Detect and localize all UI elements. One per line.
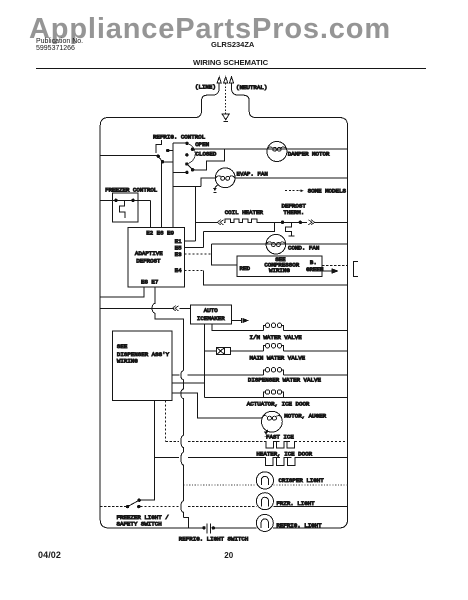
svg-text:REFRIG. CONTROL: REFRIG. CONTROL bbox=[153, 134, 206, 141]
node dot A bbox=[157, 155, 160, 158]
ground evap fan bbox=[215, 185, 218, 188]
wire I left to bar bbox=[173, 171, 187, 173]
wire E1 to riser bbox=[184, 240, 195, 242]
wire box to neutral drop bbox=[172, 382, 204, 384]
wire E2 drop bbox=[149, 200, 151, 227]
svg-text:DEFROST: DEFROST bbox=[136, 258, 161, 265]
svg-text:WIRING: WIRING bbox=[269, 267, 290, 274]
wire icemaker feed right part bbox=[180, 307, 191, 309]
hop E7 over fast ice bbox=[181, 431, 184, 452]
resistor coil heater square wave bbox=[224, 219, 258, 223]
wire fast ice right dashed bbox=[295, 440, 348, 442]
footer date bbox=[38, 550, 61, 560]
node dot D bbox=[185, 142, 188, 145]
svg-text:FRZR. LIGHT: FRZR. LIGHT bbox=[276, 500, 315, 507]
node dot I bbox=[185, 171, 188, 174]
wire fast ice line dashed left bbox=[166, 440, 264, 442]
resistor fast ice bbox=[264, 441, 295, 447]
box see dispenser assy wiring bbox=[112, 331, 172, 401]
svg-text:MOTOR, AUGER: MOTOR, AUGER bbox=[284, 413, 326, 420]
svg-text:SEE: SEE bbox=[117, 343, 128, 350]
footer page number bbox=[224, 551, 233, 560]
svg-text:FAST ICE: FAST ICE bbox=[266, 434, 294, 441]
wire E7 continue with hop over actuator feed bbox=[181, 380, 184, 432]
wire main valve line bbox=[230, 350, 263, 352]
svg-text:ADAPTIVE: ADAPTIVE bbox=[135, 250, 163, 257]
connector main valve plug bbox=[216, 347, 230, 354]
box auto icemaker bbox=[190, 305, 231, 324]
wire dispenser drop solid to switch bbox=[140, 400, 155, 499]
svg-text:CLOSED: CLOSED bbox=[196, 151, 217, 158]
node dot frzr C bbox=[137, 505, 140, 508]
svg-text:ACTUATOR, ICE DOOR: ACTUATOR, ICE DOOR bbox=[247, 400, 310, 407]
wire heater line left segment bbox=[196, 221, 218, 223]
wire E3 dashed bbox=[184, 253, 211, 255]
wire icemaker neutral drop bbox=[203, 324, 205, 398]
node dot G bbox=[185, 153, 188, 156]
wire frzr right bbox=[273, 506, 347, 508]
wire D-bar vertical (E9 drop) bbox=[172, 143, 174, 227]
svg-text:ICEMAKER: ICEMAKER bbox=[197, 315, 225, 322]
wire H up to damper line bbox=[193, 149, 225, 170]
node freezer dot 1 bbox=[114, 199, 117, 202]
motor evap fan bbox=[215, 168, 235, 188]
svg-text:THERM.: THERM. bbox=[283, 209, 304, 216]
wire crisper right dotted bbox=[274, 484, 348, 486]
svg-text:MAIN WATER VALVE: MAIN WATER VALVE bbox=[250, 355, 306, 362]
switch arc D-E bbox=[187, 143, 195, 164]
wire cond fan line bbox=[212, 243, 348, 245]
node heater dot 2 bbox=[299, 221, 302, 224]
wire E5 exit bbox=[184, 247, 203, 249]
svg-text:SOME MODELS: SOME MODELS bbox=[308, 188, 347, 195]
lamp frzr light bbox=[256, 493, 273, 510]
lamp refrig light bbox=[256, 514, 273, 531]
wire E7 to bottom rail bbox=[184, 518, 189, 528]
wire frzr light line dashed left bbox=[100, 506, 126, 508]
wire dispenser valve line bbox=[172, 374, 264, 376]
svg-text:E3: E3 bbox=[175, 251, 182, 258]
wire evap line to right bbox=[235, 177, 348, 179]
wire heater riser E1 bbox=[195, 187, 197, 241]
svg-text:B.: B. bbox=[310, 259, 317, 266]
node dot H bbox=[191, 168, 194, 171]
wire green output bbox=[322, 270, 331, 272]
wire dispenser valve right bbox=[284, 374, 348, 376]
node dot frzr A bbox=[126, 505, 129, 508]
wire icemaker feed from left edge bbox=[100, 307, 174, 309]
wire heater ice door line bbox=[154, 457, 347, 459]
wire evap feed riser bbox=[201, 178, 216, 187]
legend arrowhead bbox=[300, 189, 303, 192]
motor auger bbox=[262, 411, 283, 432]
wire I/M valve drop bbox=[212, 324, 263, 331]
wire cross link y186.7 bbox=[173, 186, 201, 188]
wire C stub bbox=[168, 150, 173, 152]
wire damper line bbox=[192, 148, 347, 150]
wire heater line mid bbox=[258, 221, 307, 223]
hop E7 over frzr line bbox=[181, 480, 184, 518]
wire E4 dashed exit bbox=[184, 270, 203, 272]
wire actuator line bbox=[204, 396, 347, 398]
svg-text:E4: E4 bbox=[175, 267, 182, 274]
switch blade E-H bbox=[187, 164, 193, 170]
header rule bbox=[36, 67, 426, 69]
svg-text:DISPENSER WATER VALVE: DISPENSER WATER VALVE bbox=[248, 377, 322, 384]
svg-text:FREEZER CONTROL: FREEZER CONTROL bbox=[105, 187, 158, 194]
motor damper bbox=[267, 142, 287, 162]
svg-text:WIRING: WIRING bbox=[117, 358, 138, 365]
wire label pointer bbox=[156, 140, 161, 153]
hop E7 over heater ice door bbox=[181, 452, 184, 479]
svg-text:I/M WATER VALVE: I/M WATER VALVE bbox=[250, 334, 303, 341]
node dot B bbox=[161, 160, 164, 163]
connector icemaker tick and arrow bbox=[242, 318, 248, 323]
svg-text:COIL HEATER: COIL HEATER bbox=[225, 209, 264, 216]
solenoid dispenser water valve bbox=[264, 370, 266, 375]
connector bracket outside right edge bbox=[354, 261, 359, 276]
switch freezer light blade bbox=[128, 500, 140, 506]
wire B dashed to edge bbox=[322, 264, 347, 266]
wire frzr dashed mid bbox=[141, 506, 257, 508]
node heater dot 1 bbox=[281, 221, 284, 224]
wire icemaker output right bbox=[231, 320, 241, 322]
switch refrig control blade A-B bbox=[158, 156, 162, 162]
solenoid actuator replaced by square coil bbox=[264, 392, 266, 397]
lamp crisper light bbox=[256, 472, 273, 489]
svg-text:HEATER, ICE DOOR: HEATER, ICE DOOR bbox=[256, 451, 312, 458]
wire E8 drop to left edge bbox=[100, 287, 144, 297]
wire E5 riser bbox=[203, 231, 205, 247]
box freezer control bbox=[112, 193, 138, 222]
node dot E bbox=[185, 162, 188, 165]
switch refrig light bbox=[202, 524, 215, 534]
thermostat defrost therm bbox=[286, 222, 295, 236]
wire fast ice drop dashed bbox=[165, 400, 167, 441]
switch freezer control stepped contact bbox=[120, 200, 126, 218]
wire auger feed bbox=[172, 393, 262, 418]
svg-text:AUTO: AUTO bbox=[204, 307, 218, 314]
watermark bbox=[29, 15, 391, 44]
wire crisper line dotted bbox=[184, 484, 257, 486]
wire bottom rail mid bbox=[213, 527, 256, 529]
legend some models dashed bbox=[285, 190, 300, 192]
svg-text:EVAP. FAN: EVAP. FAN bbox=[237, 171, 269, 178]
box see compressor wiring bbox=[237, 256, 322, 277]
wire line-side entry + outline left + bottom-left bbox=[100, 83, 219, 528]
header model number bbox=[211, 40, 254, 49]
header title bbox=[193, 58, 268, 67]
header publication no bbox=[36, 38, 83, 53]
svg-text:CRISPER LIGHT: CRISPER LIGHT bbox=[279, 477, 325, 484]
wire E7 drop with hop bbox=[152, 287, 183, 371]
connector chevrons right on heater line bbox=[308, 220, 314, 225]
svg-text:E2 E6 E9: E2 E6 E9 bbox=[146, 230, 174, 237]
node dot C bbox=[166, 149, 169, 152]
connector green tick and arrow bbox=[332, 269, 337, 274]
wire E4 drop and bottom rail bbox=[204, 271, 348, 286]
wire E6 drop bbox=[161, 162, 163, 227]
solenoid I/M water valve bbox=[264, 325, 266, 330]
wire left feed refrig control bbox=[100, 155, 158, 157]
wire freezer feed bbox=[100, 199, 150, 201]
svg-text:COND. FAN: COND. FAN bbox=[288, 245, 320, 252]
svg-text:GREEN: GREEN bbox=[306, 266, 324, 273]
svg-text:REFRIG. LIGHT SWITCH: REFRIG. LIGHT SWITCH bbox=[179, 536, 249, 543]
power entry arrows bbox=[217, 77, 234, 83]
svg-text:E8 E7: E8 E7 bbox=[141, 279, 159, 286]
wire main valve right bbox=[284, 350, 348, 352]
svg-text:DAMPER MOTOR: DAMPER MOTOR bbox=[288, 151, 330, 158]
wire ground drop (dashed) bbox=[225, 83, 227, 114]
svg-text:(NEUTRAL): (NEUTRAL) bbox=[236, 84, 267, 91]
wire neutral-side entry + outline right bbox=[232, 83, 348, 528]
connector chevrons icemaker bbox=[172, 306, 178, 311]
wire cond drop to RED bbox=[212, 244, 237, 265]
resistor heater ice door bbox=[263, 458, 297, 466]
wire heater line right segment bbox=[315, 221, 348, 223]
svg-text:RED: RED bbox=[240, 265, 251, 272]
wire I/M valve line right bbox=[284, 330, 348, 332]
svg-text:OPEN: OPEN bbox=[195, 141, 209, 148]
solenoid main water valve bbox=[264, 346, 266, 351]
svg-text:(LINE): (LINE) bbox=[195, 84, 216, 91]
svg-text:SAFETY SWITCH: SAFETY SWITCH bbox=[117, 521, 163, 528]
node dot frzr B bbox=[138, 499, 141, 502]
connector chevrons left of coil bbox=[217, 220, 223, 225]
svg-text:REFRIG. LIGHT: REFRIG. LIGHT bbox=[276, 522, 322, 529]
node freezer dot 2 bbox=[131, 199, 134, 202]
wire E5 run to heater bbox=[204, 222, 275, 231]
node dot F bbox=[191, 148, 194, 151]
ground symbol bbox=[222, 114, 229, 121]
wire B to D-bar bbox=[163, 161, 174, 163]
box adaptive defrost bbox=[128, 227, 184, 286]
wire D top edge bbox=[173, 142, 186, 144]
motor cond fan bbox=[266, 234, 286, 254]
wire main valve link bbox=[204, 350, 216, 352]
hop E7 over dispenser line bbox=[181, 371, 184, 380]
ground auger bbox=[266, 430, 268, 432]
